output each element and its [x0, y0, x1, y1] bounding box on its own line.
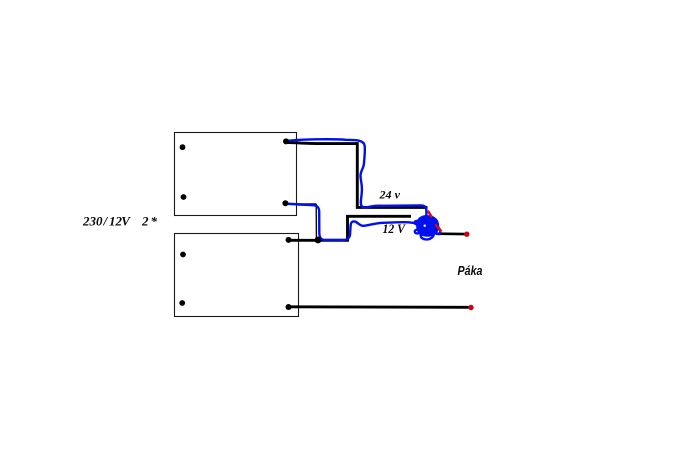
- lever red stroke visible top tip (over blob): [428, 211, 432, 218]
- lever red stroke visible lower segment (over blob): [435, 224, 441, 231]
- transformer box T2 (bottom): [175, 234, 299, 317]
- pin T2 left-bottom: [179, 300, 185, 306]
- wire blue 24V from T1 top-right pin: [287, 139, 427, 218]
- label 230 / 12 V 2 *: [82, 213, 158, 228]
- svg-text:230/12V2*: 230/12V2*: [82, 213, 158, 228]
- pin T2 right-top: [286, 237, 292, 243]
- lever red stroke (under blob): [428, 211, 442, 232]
- red terminal bottom: [468, 305, 473, 310]
- pin T1 right-top: [283, 138, 289, 144]
- blue loop edge back over red: [434, 232, 440, 234]
- wire black 12V: T2 top-right pin right, up, right (open end): [289, 216, 412, 240]
- pin T2 right-bottom: [286, 304, 292, 310]
- junction node: [315, 237, 322, 244]
- wire blue 12V from T1 bottom-right pin, down through junction, up, right to lever: [285, 204, 416, 241]
- pin T2 left-top: [180, 252, 186, 258]
- lever blob scribble (blue): [415, 216, 441, 240]
- pin T1 left-bottom: [181, 194, 187, 200]
- svg-text:24 v: 24 v: [378, 188, 400, 202]
- pin T1 left-top: [180, 144, 186, 150]
- pin T1 right-bottom: [282, 200, 288, 206]
- wire black thin from T1 bottom-right pin down to junction (under blue): [285, 204, 316, 238]
- wire black bottom: T2 bottom-right pin to red terminal: [289, 305, 469, 308]
- wire black 24V: T1 top-right pin right, down, right to lever: [287, 142, 428, 207]
- red terminal top (lever output): [464, 232, 469, 237]
- wire black lever to red terminal: [436, 232, 465, 235]
- svg-text:Páka: Páka: [458, 264, 483, 278]
- transformer box T1 (top): [175, 133, 297, 216]
- svg-text:12 V: 12 V: [383, 222, 407, 236]
